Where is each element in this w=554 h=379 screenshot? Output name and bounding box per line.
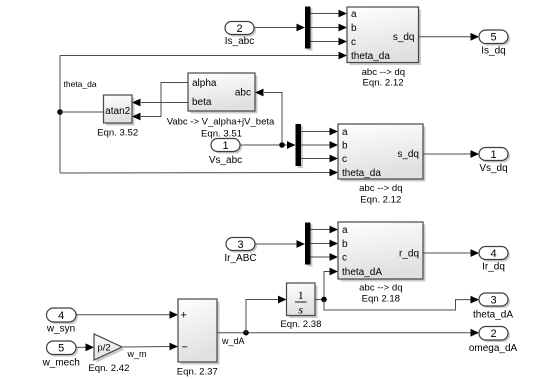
inport 5 w_mech bbox=[42, 341, 80, 368]
svg-text:Ir_ABC: Ir_ABC bbox=[224, 253, 256, 264]
inport 4 w_syn bbox=[46, 308, 78, 335]
wire U1 s_dq to outport 5 bbox=[419, 33, 480, 41]
wire U3 s_dq to outport 1 bbox=[423, 150, 479, 158]
wire w_dA to integrator bbox=[246, 296, 287, 333]
wire w_mech to gain bbox=[76, 343, 94, 351]
svg-text:w_syn: w_syn bbox=[46, 324, 75, 335]
svg-text:5: 5 bbox=[58, 343, 64, 355]
outport 2 omega_dA bbox=[469, 327, 518, 354]
svg-text:abc --> dq: abc --> dq bbox=[359, 283, 402, 294]
svg-text:1: 1 bbox=[490, 149, 496, 161]
svg-text:Eqn. 2.38: Eqn. 2.38 bbox=[280, 319, 321, 330]
svg-text:Eqn. 2.12: Eqn. 2.12 bbox=[362, 77, 403, 88]
svg-text:c: c bbox=[342, 154, 347, 165]
svg-text:b: b bbox=[351, 23, 357, 34]
wire Vs_abc to demux2 bbox=[240, 141, 296, 149]
wire theta_dA to U4 bbox=[324, 268, 338, 300]
inport 1 Vs_abc bbox=[209, 139, 242, 166]
svg-text:1: 1 bbox=[222, 140, 228, 152]
demux1 bbox=[305, 7, 313, 51]
wire abc input from node Vs bbox=[255, 89, 282, 145]
svg-text:beta: beta bbox=[192, 97, 212, 108]
wire beta to atan2 in1 bbox=[132, 99, 188, 107]
node w_dA junction bbox=[243, 330, 249, 336]
svg-text:b: b bbox=[342, 141, 348, 152]
svg-text:s_dq: s_dq bbox=[393, 32, 415, 43]
svg-text:a: a bbox=[351, 9, 357, 20]
inport 3 Ir_ABC bbox=[224, 238, 257, 264]
block integrator 1/s bbox=[287, 283, 318, 318]
inport 2 Is_abc bbox=[225, 22, 256, 48]
demux2 bbox=[296, 124, 304, 168]
svg-text:−: − bbox=[182, 341, 188, 353]
node theta_dA junction bbox=[321, 297, 327, 303]
svg-text:theta_da: theta_da bbox=[351, 51, 390, 62]
svg-text:b: b bbox=[342, 239, 348, 250]
sum S1 bbox=[178, 299, 220, 365]
svg-text:abc --> dq: abc --> dq bbox=[359, 183, 402, 194]
wire integrator out to node bbox=[315, 299, 324, 301]
svg-text:alpha: alpha bbox=[192, 78, 217, 89]
block U2 Vabc->Valpha+jVbeta bbox=[188, 73, 258, 114]
gain G1 p/2 bbox=[94, 334, 125, 363]
svg-text:theta_dA: theta_dA bbox=[473, 310, 513, 321]
wire U4 r_dq to outport 4 bbox=[423, 249, 479, 257]
svg-text:w_m: w_m bbox=[126, 349, 146, 359]
svg-text:Eqn. 2.37: Eqn. 2.37 bbox=[177, 367, 218, 378]
svg-text:a: a bbox=[342, 225, 348, 236]
svg-text:3: 3 bbox=[237, 239, 243, 251]
svg-text:Eqn. 3.52: Eqn. 3.52 bbox=[97, 128, 138, 139]
svg-text:r_dq: r_dq bbox=[399, 248, 419, 259]
svg-text:Is_abc: Is_abc bbox=[225, 36, 254, 47]
svg-text:w_mech: w_mech bbox=[42, 357, 80, 368]
svg-text:c: c bbox=[342, 253, 347, 264]
wire theta_da to block U1 bbox=[60, 52, 347, 60]
svg-text:atan2: atan2 bbox=[105, 106, 130, 117]
svg-text:5: 5 bbox=[490, 32, 496, 44]
svg-text:Vs_dq: Vs_dq bbox=[479, 163, 507, 174]
node theta_da junction bbox=[57, 109, 63, 115]
outport 3 theta_dA bbox=[473, 293, 513, 321]
svg-text:Vabc -> V_alpha+jV_beta: Vabc -> V_alpha+jV_beta bbox=[167, 117, 275, 128]
svg-text:3: 3 bbox=[490, 294, 496, 306]
wire demux3 out a bbox=[311, 226, 339, 234]
wire demux2 out b bbox=[301, 141, 338, 149]
svg-text:c: c bbox=[351, 37, 356, 48]
demux3 bbox=[305, 223, 313, 267]
svg-text:s_dq: s_dq bbox=[397, 149, 419, 160]
svg-text:+: + bbox=[181, 310, 187, 322]
wire Ir_ABC to demux3 bbox=[255, 240, 305, 248]
outport 4 Ir_dq bbox=[479, 247, 510, 273]
svg-text:abc: abc bbox=[235, 88, 251, 99]
wire w_syn to sum bbox=[76, 311, 178, 319]
svg-text:Vs_abc: Vs_abc bbox=[209, 155, 242, 166]
svg-text:4: 4 bbox=[490, 248, 496, 260]
wire atan2 out to node bbox=[60, 111, 104, 113]
svg-text:theta_dA: theta_dA bbox=[342, 267, 382, 278]
svg-text:2: 2 bbox=[236, 23, 242, 35]
wire theta_da to block U3 bbox=[60, 169, 338, 177]
svg-text:4: 4 bbox=[58, 310, 64, 322]
svg-text:Eqn. 3.51: Eqn. 3.51 bbox=[201, 129, 242, 140]
svg-text:theta_da: theta_da bbox=[342, 168, 381, 179]
svg-text:Eqn. 2.12: Eqn. 2.12 bbox=[360, 194, 401, 205]
svg-text:p/2: p/2 bbox=[98, 343, 111, 354]
wire gain to sum, net w_m bbox=[122, 343, 178, 351]
wire demux2 out c bbox=[301, 155, 338, 163]
outport 1 Vs_dq bbox=[479, 148, 510, 175]
block atan2 bbox=[104, 95, 135, 126]
svg-text:Eqn. 2.42: Eqn. 2.42 bbox=[88, 363, 129, 374]
wire theta_dA to outport 3 bbox=[324, 296, 479, 310]
wire demux2 out a bbox=[301, 128, 338, 136]
wire demux3 out b bbox=[311, 240, 339, 248]
wire demux1 out b bbox=[311, 24, 348, 32]
wire alpha to atan2 in2 bbox=[132, 83, 188, 121]
svg-text:1: 1 bbox=[298, 288, 304, 302]
wire theta_da feedback vertical bbox=[59, 56, 61, 174]
wire Is_abc to demux1 bbox=[254, 24, 305, 32]
svg-text:a: a bbox=[342, 127, 348, 138]
wire demux1 out c bbox=[311, 38, 348, 46]
svg-text:2: 2 bbox=[490, 328, 496, 340]
svg-text:omega_dA: omega_dA bbox=[469, 343, 518, 354]
wire sum out, net w_dA to omega_dA bbox=[217, 329, 479, 337]
wire demux3 out c bbox=[311, 253, 339, 261]
wire demux1 out a bbox=[311, 10, 348, 18]
svg-text:Ir_dq: Ir_dq bbox=[482, 261, 505, 272]
node Vs junction bbox=[279, 142, 285, 148]
svg-text:Is_dq: Is_dq bbox=[481, 46, 505, 57]
svg-text:Eqn 2.18: Eqn 2.18 bbox=[362, 293, 400, 304]
svg-text:theta_da: theta_da bbox=[64, 79, 97, 89]
svg-text:w_dA: w_dA bbox=[221, 336, 245, 346]
svg-text:s: s bbox=[298, 303, 303, 317]
outport 5 Is_dq bbox=[479, 30, 510, 57]
